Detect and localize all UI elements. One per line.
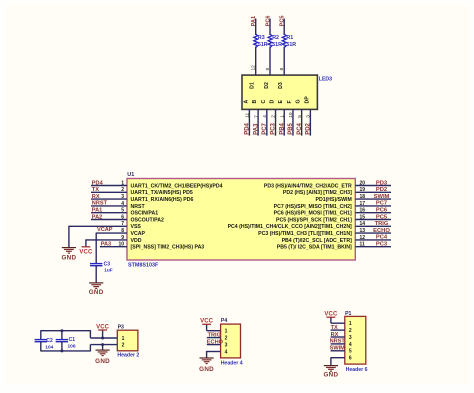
net label PB5 (rotated) <box>288 122 294 134</box>
LED3 segment name A <box>243 100 249 104</box>
svg-text:R3: R3 <box>258 35 265 41</box>
U1 pin 8 wire (VCAP net) <box>96 228 127 263</box>
svg-text:RX: RX <box>331 332 339 338</box>
svg-text:PC5: PC5 <box>376 214 388 220</box>
net label SWIM <box>330 346 346 352</box>
svg-text:GND: GND <box>95 358 110 365</box>
svg-text:PD3: PD3 <box>376 180 388 186</box>
wire P1 pin 1 to VCC <box>331 317 345 323</box>
resistor R2 51R <box>268 34 282 48</box>
wire P3 pin 1 (VCC rail) <box>90 337 117 339</box>
svg-text:D2: D2 <box>264 82 270 89</box>
svg-text:9: 9 <box>265 68 271 71</box>
svg-text:PC7: PC7 <box>262 122 268 134</box>
IC U1 STM8S103F body <box>127 172 355 269</box>
ground below C3 <box>89 283 104 296</box>
svg-text:1: 1 <box>121 180 124 186</box>
junction GND node <box>101 343 104 346</box>
svg-text:PD2 (HS) [AIN3] [TIM2_CH3]: PD2 (HS) [AIN3] [TIM2_CH3] <box>283 190 352 196</box>
net label RX <box>331 332 339 338</box>
LED3 segment name C <box>261 100 267 104</box>
junction C1 top <box>60 329 63 332</box>
net label PD4 <box>92 180 104 186</box>
wire to LED3 pin 9 <box>269 19 271 76</box>
svg-text:PC4: PC4 <box>376 235 388 241</box>
svg-text:PA3: PA3 <box>253 123 259 135</box>
capacitor C1 106 <box>56 330 76 351</box>
U1 pin 11 wire <box>355 242 391 248</box>
svg-text:4: 4 <box>349 342 352 348</box>
svg-text:2: 2 <box>349 328 352 334</box>
svg-text:2: 2 <box>271 115 277 118</box>
svg-text:VCAP: VCAP <box>131 231 146 237</box>
LED3 pin number 7 <box>253 115 259 118</box>
svg-text:PC6: PC6 <box>265 16 271 27</box>
svg-text:VCC: VCC <box>79 250 93 256</box>
svg-text:GND: GND <box>89 289 104 296</box>
wire to LED3 pin 12 <box>255 19 257 76</box>
U1 pin 17 wire <box>355 201 391 207</box>
LED3 segment pin F wire <box>292 109 294 135</box>
svg-text:Header 4: Header 4 <box>221 360 243 366</box>
svg-text:1: 1 <box>122 336 125 342</box>
svg-text:Header 2: Header 2 <box>117 353 139 359</box>
svg-text:PD2: PD2 <box>306 122 312 134</box>
svg-text:SWIM: SWIM <box>374 194 390 200</box>
svg-text:3: 3 <box>349 335 352 341</box>
svg-text:B: B <box>252 100 258 104</box>
wire top rail to caps <box>41 330 91 338</box>
svg-text:PD4: PD4 <box>245 122 251 134</box>
svg-text:5: 5 <box>121 208 124 214</box>
junction VCC node <box>101 337 104 340</box>
U1 pin 4 wire <box>91 201 127 207</box>
LED3 segment pin B wire <box>257 109 259 135</box>
svg-text:TX: TX <box>92 187 99 193</box>
svg-text:PC3: PC3 <box>271 122 277 134</box>
svg-text:SWIM: SWIM <box>330 346 346 352</box>
svg-text:10: 10 <box>118 242 124 248</box>
net label PC4 (rotated) <box>297 122 303 134</box>
svg-text:ECHO: ECHO <box>207 339 224 345</box>
svg-text:D: D <box>270 100 276 104</box>
svg-text:20: 20 <box>360 180 366 186</box>
LED3 digit name D3 <box>278 82 284 89</box>
svg-text:104: 104 <box>45 345 53 351</box>
LED3 segment name G <box>296 99 302 103</box>
LED3 pin number 2 <box>271 115 277 118</box>
svg-text:D3: D3 <box>278 82 284 89</box>
svg-text:LED3: LED3 <box>319 76 332 82</box>
svg-text:VCC: VCC <box>200 319 214 325</box>
net label NRST <box>92 201 108 207</box>
svg-text:3: 3 <box>121 194 124 200</box>
svg-text:PD4: PD4 <box>92 180 104 186</box>
svg-text:1uF: 1uF <box>104 268 113 274</box>
U1 pin 10 wire <box>100 242 127 248</box>
U1 pin 9 wire to power <box>86 235 127 247</box>
svg-text:NRST: NRST <box>330 339 346 345</box>
net label NRST <box>330 339 346 345</box>
LED3 segment name DP <box>304 96 310 104</box>
svg-text:C1: C1 <box>69 337 76 343</box>
net label PC6 <box>376 208 388 214</box>
net label PA3 <box>101 241 111 247</box>
svg-text:DP: DP <box>304 96 310 104</box>
svg-text:13: 13 <box>360 228 366 234</box>
U1 right pin names <box>228 183 353 250</box>
svg-text:C: C <box>261 100 267 104</box>
svg-text:7: 7 <box>253 115 259 118</box>
LED3 pin number 10 <box>288 112 294 118</box>
ground at P3 <box>95 345 110 366</box>
net label PD2 (rotated) <box>306 122 312 134</box>
net label PD4 (rotated) <box>245 122 251 134</box>
net label PD3 <box>376 180 388 186</box>
LED3 digit name D2 <box>264 82 270 89</box>
svg-text:8: 8 <box>279 68 285 71</box>
LED3 pin number 4 <box>262 115 268 118</box>
svg-text:R2: R2 <box>272 35 279 41</box>
U1 pin 19 wire <box>355 187 391 193</box>
net label ECHO <box>373 228 390 234</box>
svg-text:ECHO: ECHO <box>373 228 390 234</box>
svg-text:OSCIN/PA1: OSCIN/PA1 <box>131 211 159 217</box>
svg-text:17: 17 <box>360 201 366 207</box>
U1 pin 3 wire <box>91 194 127 200</box>
svg-text:GND: GND <box>323 371 338 378</box>
svg-text:UART1_RX/AIN6(HS) PD6: UART1_RX/AIN6(HS) PD6 <box>131 197 194 203</box>
LED3 pin number 12 <box>251 65 257 71</box>
U1 pin 2 wire <box>91 187 127 193</box>
net label TX <box>92 187 99 193</box>
ground at U1 VSS <box>61 248 76 262</box>
net label RX <box>92 194 100 200</box>
svg-text:9: 9 <box>121 235 124 241</box>
wire P4 pin 4 to ground <box>207 351 221 358</box>
wire P4 pin 3 (ECHO) <box>207 344 221 346</box>
net label TX <box>331 325 338 331</box>
svg-text:STM8S103F: STM8S103F <box>128 263 159 269</box>
U1 pin 7 wire to ground <box>69 221 127 247</box>
net label TRIG <box>375 221 389 227</box>
wire P1 pin 6 to ground <box>331 357 345 365</box>
svg-text:1: 1 <box>279 115 285 118</box>
power VCC at U1 VDD <box>79 247 93 256</box>
U1 pin 6 wire <box>91 214 127 220</box>
svg-text:4: 4 <box>121 201 124 207</box>
svg-text:12: 12 <box>360 235 366 241</box>
LED3 segment name E <box>278 100 284 104</box>
svg-text:TRIG: TRIG <box>375 221 389 227</box>
net label VCAP <box>97 227 113 233</box>
svg-text:4: 4 <box>262 115 268 118</box>
svg-text:11: 11 <box>360 242 366 248</box>
net label PA3 (rotated) <box>253 123 259 135</box>
LED3 pin number 3 <box>306 115 312 118</box>
net label PD2 <box>376 187 387 193</box>
U1 pin 1 wire <box>91 180 127 186</box>
svg-text:PA1: PA1 <box>251 16 257 26</box>
svg-text:5: 5 <box>349 349 352 355</box>
net label PC3 (rotated) <box>271 122 277 134</box>
svg-text:PB5 (T)/ I2C_SDA [TIM1_BKIN]: PB5 (T)/ I2C_SDA [TIM1_BKIN] <box>277 245 352 251</box>
wire to LED3 pin 8 <box>283 19 285 76</box>
net label PC3 <box>376 242 388 248</box>
U1 pin 12 wire <box>355 235 391 241</box>
svg-text:2: 2 <box>225 336 228 342</box>
ground at P4 <box>199 358 214 373</box>
LED3 segment pin E wire <box>283 109 285 135</box>
junction C1 bottom <box>60 349 63 352</box>
svg-text:NRST: NRST <box>131 204 146 210</box>
svg-text:3: 3 <box>225 342 228 348</box>
svg-text:2: 2 <box>122 343 125 349</box>
svg-text:PC4: PC4 <box>297 122 303 134</box>
net label PC6 (rotated) <box>265 16 271 27</box>
U1 pin 5 wire <box>91 208 127 214</box>
net label PA2 <box>92 214 102 220</box>
net label PC5 <box>376 214 388 220</box>
net label SWIM <box>374 194 390 200</box>
svg-text:PC7 (HS)/SPI_MISO [TIM1_CH2]: PC7 (HS)/SPI_MISO [TIM1_CH2] <box>274 204 352 210</box>
svg-text:12: 12 <box>251 65 257 71</box>
svg-text:GND: GND <box>61 255 76 262</box>
svg-text:TRIG: TRIG <box>208 332 221 338</box>
svg-text:P3: P3 <box>118 325 124 331</box>
svg-text:PA1: PA1 <box>92 208 102 214</box>
svg-text:RX: RX <box>92 194 100 200</box>
svg-text:PC7: PC7 <box>376 201 387 207</box>
svg-text:7: 7 <box>121 221 124 227</box>
LED3 segment pin A wire <box>248 109 250 135</box>
svg-text:U1: U1 <box>127 172 134 178</box>
LED3 pin number 9 <box>265 68 271 71</box>
LED3 segment pin DP wire <box>309 109 311 135</box>
wire C3 to ground <box>95 266 97 283</box>
svg-text:51R: 51R <box>272 42 282 48</box>
wire P4 pin 2 (TRIG) <box>207 337 221 339</box>
svg-text:VSS: VSS <box>131 224 142 230</box>
svg-text:F: F <box>287 100 293 103</box>
resistor R3 51R <box>254 34 268 48</box>
LED3 pin number 5 <box>297 115 303 118</box>
svg-text:D1: D1 <box>250 82 256 89</box>
svg-text:PC5: PC5 <box>280 16 286 27</box>
svg-text:2: 2 <box>121 187 124 193</box>
net label PC7 (rotated) <box>262 122 268 134</box>
svg-text:1: 1 <box>349 321 352 327</box>
svg-text:UART1_TX/AIN5(HS) PD5: UART1_TX/AIN5(HS) PD5 <box>131 190 193 196</box>
wire P1 pin 5 (SWIM) <box>331 350 345 352</box>
svg-text:PB5: PB5 <box>288 122 294 134</box>
LED3 digit name D1 <box>250 82 256 89</box>
LED3 segment pin D wire <box>275 109 277 135</box>
svg-text:PC6: PC6 <box>376 208 388 214</box>
U1 pin 15 wire <box>355 214 391 220</box>
svg-text:VCAP: VCAP <box>97 227 113 233</box>
svg-text:P4: P4 <box>221 318 227 324</box>
svg-text:G: G <box>296 99 302 103</box>
capacitor C2 104 <box>35 330 54 351</box>
wire P1 pin 3 (RX) <box>331 336 345 338</box>
svg-text:15: 15 <box>360 214 366 220</box>
LED3 pin number 8 <box>279 68 285 71</box>
wire P1 pin 4 (NRST) <box>331 343 345 345</box>
U1 pin 18 wire <box>355 194 391 200</box>
svg-text:10: 10 <box>288 112 294 118</box>
svg-text:VCC: VCC <box>324 312 338 318</box>
svg-text:E: E <box>278 100 284 104</box>
svg-text:Header 6: Header 6 <box>346 367 368 373</box>
svg-text:5: 5 <box>297 115 303 118</box>
svg-text:51R: 51R <box>258 42 268 48</box>
header P3 body <box>117 325 139 359</box>
svg-text:PC6 (HS)/SPI_MOSI [TIM1_CH1]: PC6 (HS)/SPI_MOSI [TIM1_CH1] <box>274 211 352 217</box>
svg-text:PB4: PB4 <box>279 122 285 134</box>
svg-text:PC5 (HS)/SPI_SCK [TIM2_CH1]: PC5 (HS)/SPI_SCK [TIM2_CH1] <box>276 217 352 223</box>
svg-text:VCC: VCC <box>96 324 110 330</box>
svg-text:PB4 (T)/I2C_SCL [ADC_ETR]: PB4 (T)/I2C_SCL [ADC_ETR] <box>282 238 353 244</box>
svg-text:16: 16 <box>360 208 366 214</box>
svg-text:3: 3 <box>306 115 312 118</box>
LED3 pin number 1 <box>279 115 285 118</box>
svg-text:OSCOUT/PA2: OSCOUT/PA2 <box>131 217 164 223</box>
svg-text:TX: TX <box>331 325 338 331</box>
svg-text:1: 1 <box>225 329 228 335</box>
LED3 segment name D <box>270 100 276 104</box>
resistor R1 51R <box>282 34 296 48</box>
svg-text:4: 4 <box>225 349 228 355</box>
capacitor C3 1uF <box>90 262 113 274</box>
net label PA1 <box>92 208 102 214</box>
net label PC5 (rotated) <box>280 16 286 27</box>
power VCC at P1 <box>324 312 338 318</box>
svg-text:PC3: PC3 <box>376 242 388 248</box>
svg-text:P1: P1 <box>345 311 351 317</box>
svg-text:11: 11 <box>245 112 251 117</box>
wire P4 pin 1 to VCC <box>207 324 221 330</box>
svg-text:C2: C2 <box>46 338 53 344</box>
power VCC at P4 <box>200 319 214 325</box>
svg-text:8: 8 <box>121 228 124 234</box>
svg-text:106: 106 <box>68 344 76 350</box>
7-segment display LED3 body <box>242 75 332 109</box>
net label ECHO <box>207 339 224 345</box>
U1 pin 20 wire <box>355 180 391 186</box>
LED3 segment name F <box>287 100 293 103</box>
wire bottom rail to caps <box>41 345 91 352</box>
svg-text:PA3: PA3 <box>101 241 111 247</box>
svg-text:PD1(HS)/SWIM: PD1(HS)/SWIM <box>315 197 351 203</box>
ground at P1 <box>323 366 338 379</box>
svg-text:PA2: PA2 <box>92 214 102 220</box>
svg-text:VDD: VDD <box>131 238 142 244</box>
svg-text:19: 19 <box>360 187 366 193</box>
U1 pin 14 wire <box>355 221 391 227</box>
svg-text:C3: C3 <box>104 262 111 268</box>
svg-text:PD3 (HS)/AIN4/TIM2_CH2/ADC_ETR: PD3 (HS)/AIN4/TIM2_CH2/ADC_ETR <box>264 183 352 189</box>
header P4 body <box>221 318 243 366</box>
LED3 segment name B <box>252 100 258 104</box>
svg-text:PC4 (HS)/TIM1_CH4/CLK_CCO [AIN: PC4 (HS)/TIM1_CH4/CLK_CCO [AIN2][TIM1_CH… <box>228 224 352 230</box>
LED3 segment pin G wire <box>301 109 303 135</box>
svg-text:51R: 51R <box>286 42 296 48</box>
net label PC4 <box>376 235 388 241</box>
svg-text:[SPI_NSS] TIM2_CH3(HS) PA3: [SPI_NSS] TIM2_CH3(HS) PA3 <box>131 245 205 251</box>
net label PA1 (rotated) <box>251 16 257 26</box>
svg-text:6: 6 <box>121 214 124 220</box>
net label PC7 <box>376 201 387 207</box>
power VCC at P3 <box>96 324 110 338</box>
svg-text:A: A <box>243 100 249 104</box>
U1 pin 13 wire <box>355 228 391 234</box>
svg-text:GND: GND <box>199 366 214 373</box>
U1 pin 16 wire <box>355 208 391 214</box>
svg-text:18: 18 <box>360 194 366 200</box>
svg-text:PD2: PD2 <box>376 187 387 193</box>
svg-text:NRST: NRST <box>92 201 108 207</box>
svg-text:R1: R1 <box>286 35 293 41</box>
svg-text:14: 14 <box>360 221 366 227</box>
svg-text:6: 6 <box>349 356 352 362</box>
net label TRIG <box>208 332 221 338</box>
svg-text:UART1_CK/TIM2_CH1/BEEP(HS)/PD4: UART1_CK/TIM2_CH1/BEEP(HS)/PD4 <box>131 183 223 189</box>
header P1 body <box>345 311 368 373</box>
U1 left pin names <box>131 183 223 250</box>
wire P3 pin 2 (GND rail) <box>90 344 117 346</box>
svg-text:PC3 (HS)/TIM1_CH3 [TLI][TIM1_C: PC3 (HS)/TIM1_CH3 [TLI][TIM1_CH1N] <box>258 231 352 237</box>
net label PB4 (rotated) <box>279 122 285 134</box>
wire P1 pin 2 (TX) <box>331 329 345 331</box>
LED3 pin number 11 <box>245 112 251 117</box>
LED3 segment pin C wire <box>266 109 268 135</box>
